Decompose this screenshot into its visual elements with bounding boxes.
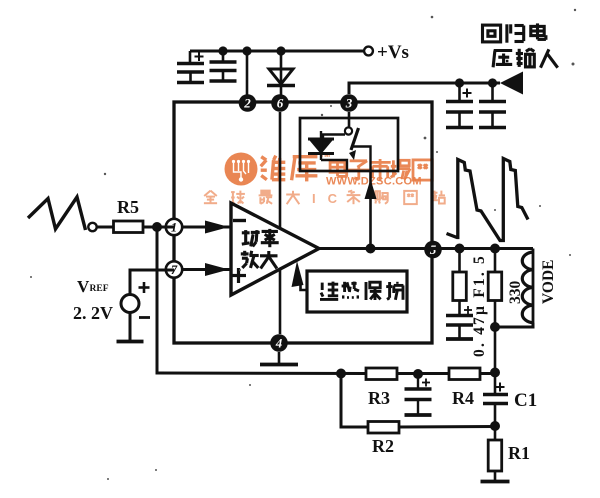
pin 6: [271, 94, 289, 112]
label huigui dianya shuru line2: [494, 49, 513, 52]
svg-text:4: 4: [275, 336, 283, 351]
IC U1 outline: [174, 102, 432, 343]
node C1-R1: [490, 421, 500, 431]
capacitor C-zobel 0.47u: [446, 314, 473, 317]
wire to R5: [97, 226, 113, 229]
polarity - Vref: [139, 316, 150, 319]
svg-text:V: V: [77, 277, 90, 296]
polarity + C-zobel: [464, 309, 472, 311]
ground pin4: [260, 363, 298, 367]
capacitor C-vs2: [210, 60, 237, 63]
ground R1: [481, 480, 510, 484]
watermark slogan: [204, 191, 445, 206]
transistor Q1 in block: [351, 128, 359, 150]
resistor R3: [366, 368, 397, 380]
resistor R1: [494, 426, 497, 440]
node flyback-C4: [488, 78, 497, 87]
voltage source Vref: [121, 295, 139, 313]
diode D1: [269, 69, 293, 84]
polarity + C5: [422, 382, 430, 384]
svg-text:330: 330: [507, 281, 524, 305]
label guore baohu: [321, 283, 324, 290]
pin 7: [166, 261, 182, 277]
svg-text:R1: R1: [508, 443, 530, 463]
inductor deflection yoke: [532, 249, 535, 328]
capacitor C1: [494, 373, 497, 395]
svg-text:R2: R2: [372, 436, 394, 456]
resistor R4: [449, 368, 480, 380]
node C1 top: [490, 368, 500, 378]
pin 4: [270, 334, 288, 352]
label gonglü fangda: [242, 231, 250, 234]
wire bottom rail: [157, 372, 366, 374]
sawtooth input waveform: [28, 197, 86, 230]
label huigui dianya shuru line1: [483, 25, 501, 42]
capacitor C3: [458, 83, 461, 102]
wire pin3 riser to flyback input: [349, 83, 500, 94]
capacitor C-vs1: [189, 51, 192, 64]
terminal +Vs: [364, 47, 373, 56]
svg-text:WWW.DZSC.COM: WWW.DZSC.COM: [326, 176, 422, 188]
pin 3: [340, 94, 358, 112]
terminal sawtooth: [88, 223, 96, 231]
node flyback-C3: [455, 78, 464, 87]
svg-text:2. 2V: 2. 2V: [73, 303, 113, 323]
wire R2 to C1 bottom: [399, 425, 495, 429]
node R2 branch: [336, 369, 346, 379]
wire pin4 ground stub: [278, 352, 281, 363]
svg-text:C1: C1: [514, 390, 537, 411]
terminal flyback input arrow: [500, 72, 523, 95]
diode D2 in block: [308, 138, 334, 141]
svg-text:3: 3: [345, 96, 353, 111]
capacitor C5: [417, 374, 419, 389]
node output-zobel: [455, 244, 465, 254]
svg-text:+Vs: +Vs: [377, 42, 409, 63]
node yoke-330: [490, 322, 500, 332]
wire output from op-amp: [319, 247, 533, 250]
wire block internal: [323, 135, 345, 140]
wire thermal arrow: [301, 284, 308, 290]
wire top +Vs rail: [190, 50, 364, 53]
node rail-D1: [276, 46, 285, 55]
wire pin2 stub: [246, 51, 249, 95]
thermal protection block: [307, 271, 407, 312]
svg-text:R4: R4: [452, 388, 474, 408]
svg-text:VODE: VODE: [540, 260, 557, 304]
wire Vref to ground: [129, 313, 132, 341]
wire R4 to C1 node: [480, 372, 495, 375]
pin 5: [424, 241, 442, 259]
resistor R-330: [494, 249, 497, 273]
resistor R-zobel 1.5: [458, 249, 461, 273]
wire pin3 into block: [348, 112, 351, 128]
node output-R330: [490, 244, 500, 254]
wire D2 to emitter: [321, 160, 347, 170]
watermark text dianzishichangwang: [330, 159, 432, 181]
node feedback: [152, 222, 162, 232]
node rail-C2: [218, 46, 227, 55]
wire C2 lead: [222, 51, 225, 62]
op-amp minus sign: [233, 219, 246, 222]
wire feedback drop: [156, 227, 159, 372]
polarity + Vref: [139, 286, 150, 289]
wire pin6 down to pin4: [279, 112, 282, 334]
ground Vref: [117, 340, 144, 344]
wire 330 to C1 node: [494, 327, 497, 373]
wire R1 to ground: [494, 471, 497, 480]
flyback waveform icon 1: [447, 159, 529, 241]
polarity + C-vs1: [195, 56, 204, 58]
node output-fb: [366, 244, 376, 254]
watermark logo: [225, 153, 258, 186]
svg-text:R3: R3: [368, 388, 390, 408]
wire arrow into inverting input: [182, 226, 231, 229]
svg-text:IC: IC: [312, 191, 349, 206]
wire R3 to node: [397, 372, 449, 375]
svg-text:R5: R5: [117, 197, 139, 217]
wire R2 branch down: [341, 374, 368, 428]
svg-text:2: 2: [243, 96, 251, 111]
node rail-pin2: [242, 46, 251, 55]
wire Vref to pin7: [130, 270, 174, 295]
flyback generator block U1a: [300, 118, 398, 171]
op-amp A1 power amp: [231, 203, 319, 295]
wire arrow into noninverting input: [182, 268, 231, 271]
svg-text:6: 6: [277, 96, 284, 111]
resistor R2: [368, 422, 399, 434]
pin 1: [166, 219, 182, 235]
wire R5 to node: [143, 226, 174, 229]
node R3-R4-C5: [413, 369, 423, 379]
resistor R5: [114, 221, 144, 233]
svg-text:REF: REF: [90, 284, 109, 294]
wire flyback fb to output: [369, 171, 372, 249]
ground C-zobel: [446, 337, 473, 341]
watermark text weiku: [261, 152, 331, 181]
node open circle in block: [345, 127, 352, 134]
polarity + C3: [463, 92, 472, 94]
polarity + C1: [496, 386, 505, 388]
capacitor C4: [491, 83, 494, 102]
svg-text:0. 47µ F1. 5: 0. 47µ F1. 5: [471, 254, 488, 357]
ground C5: [405, 413, 432, 417]
pin 2: [239, 94, 257, 112]
op-amp plus sign: [231, 274, 246, 277]
